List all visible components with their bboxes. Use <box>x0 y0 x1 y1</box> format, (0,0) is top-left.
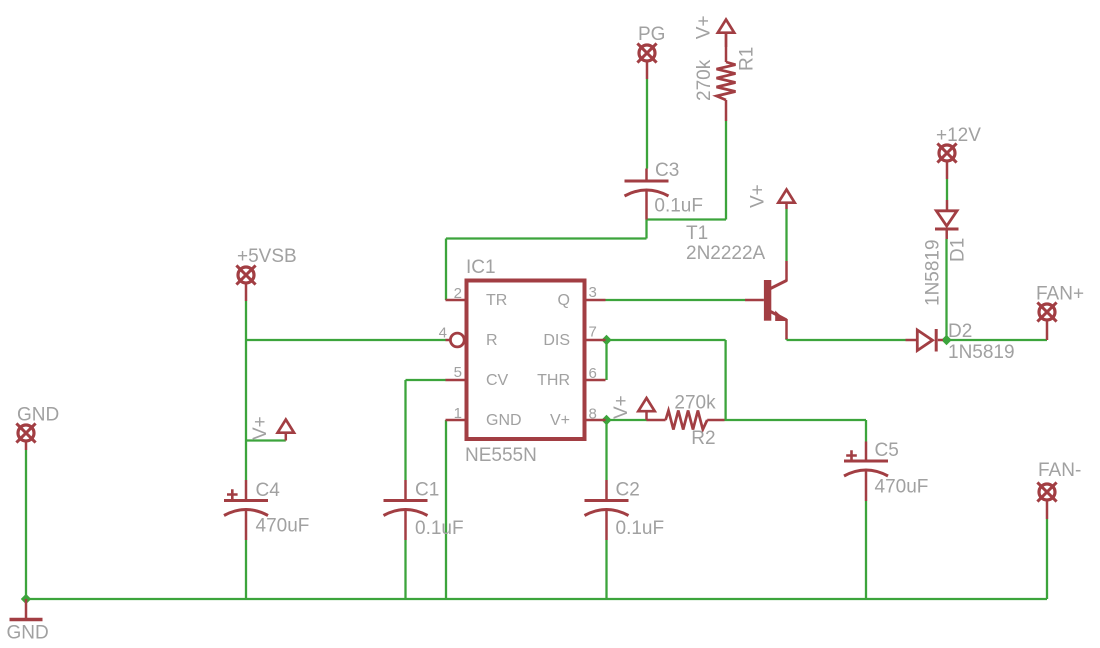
svg-text:4: 4 <box>439 325 447 342</box>
svg-text:7: 7 <box>589 324 597 341</box>
svg-text:C1: C1 <box>415 480 439 501</box>
svg-text:R1: R1 <box>736 47 757 71</box>
svg-text:D1: D1 <box>947 238 968 262</box>
svg-text:GND: GND <box>486 412 522 429</box>
svg-text:2: 2 <box>454 285 462 302</box>
svg-text:GND: GND <box>17 405 59 426</box>
svg-text:3: 3 <box>589 284 597 301</box>
svg-text:C3: C3 <box>655 160 679 181</box>
svg-text:C2: C2 <box>616 480 640 501</box>
svg-text:270k: 270k <box>674 393 716 414</box>
svg-text:DIS: DIS <box>543 332 570 349</box>
svg-text:470uF: 470uF <box>256 516 310 537</box>
svg-text:NE555N: NE555N <box>465 445 537 466</box>
svg-text:V+: V+ <box>694 15 715 39</box>
svg-text:6: 6 <box>589 365 597 382</box>
svg-text:2N2222A: 2N2222A <box>686 243 766 264</box>
svg-text:D2: D2 <box>948 321 972 342</box>
svg-text:THR: THR <box>537 372 570 389</box>
svg-text:+5VSB: +5VSB <box>237 246 297 267</box>
svg-text:T1: T1 <box>686 223 708 244</box>
svg-text:5: 5 <box>454 364 462 381</box>
svg-text:V+: V+ <box>611 395 632 419</box>
svg-text:V+: V+ <box>747 184 768 208</box>
svg-text:IC1: IC1 <box>466 257 496 278</box>
svg-text:8: 8 <box>589 406 597 423</box>
svg-text:C4: C4 <box>256 480 281 501</box>
svg-text:470uF: 470uF <box>875 477 929 498</box>
svg-text:Q: Q <box>558 292 570 309</box>
svg-text:GND: GND <box>7 623 49 644</box>
svg-text:V+: V+ <box>250 416 271 440</box>
svg-text:FAN+: FAN+ <box>1036 284 1084 305</box>
svg-text:V+: V+ <box>550 412 570 429</box>
svg-text:270k: 270k <box>694 59 715 101</box>
svg-text:PG: PG <box>638 24 665 45</box>
svg-text:C5: C5 <box>875 440 899 461</box>
svg-text:0.1uF: 0.1uF <box>415 518 464 539</box>
svg-text:0.1uF: 0.1uF <box>654 196 703 217</box>
svg-text:+12V: +12V <box>936 125 981 146</box>
svg-text:CV: CV <box>486 372 509 389</box>
svg-text:R2: R2 <box>691 428 715 449</box>
svg-text:R: R <box>486 332 498 349</box>
svg-text:1N5819: 1N5819 <box>948 342 1015 363</box>
svg-text:0.1uF: 0.1uF <box>616 518 665 539</box>
svg-text:FAN-: FAN- <box>1038 460 1081 481</box>
svg-text:1N5819: 1N5819 <box>922 239 943 306</box>
svg-text:1: 1 <box>454 405 462 422</box>
svg-text:TR: TR <box>486 292 507 309</box>
